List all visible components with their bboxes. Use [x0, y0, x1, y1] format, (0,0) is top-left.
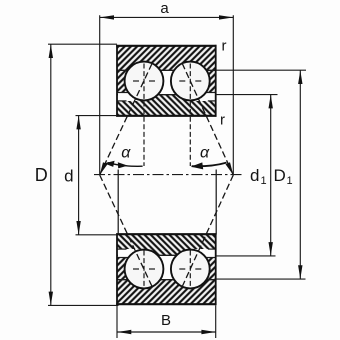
ball top-left: [125, 62, 164, 101]
gap edges right (top): [206, 92, 216, 94]
bore line (top section): [116, 115, 216, 117]
D1 extension line bottom: [216, 278, 306, 280]
contact line bottom-right dashed: [182, 175, 233, 287]
outer ring (bottom) hatched body: [117, 258, 216, 305]
svg-text:a: a: [160, 0, 169, 17]
svg-text:r: r: [222, 38, 227, 55]
svg-text:α: α: [121, 145, 131, 162]
B extension line right: [215, 305, 217, 338]
face gap notch right (bottom): [203, 250, 216, 258]
ball centerline dashed right (bottom): [189, 251, 191, 288]
ball top-right: [171, 62, 210, 101]
alpha arc arrow right: [191, 162, 227, 169]
D1 dimension line: [299, 70, 301, 279]
outer ring shoulder line (D1) bottom: [117, 279, 216, 281]
bore silhouette line right below axis: [215, 170, 217, 235]
ball centerline dashed left (top): [143, 64, 145, 167]
B arrow right: [201, 330, 215, 334]
d1 extension line top: [216, 94, 278, 96]
B arrow left: [117, 330, 131, 334]
B dimension line: [117, 331, 216, 333]
outer ring (top) hatched body: [117, 46, 216, 93]
gap edges left (top): [117, 92, 129, 94]
inner ring shoulder line (d1) bottom: [117, 254, 216, 256]
svg-text:d: d: [64, 167, 73, 186]
contact line top-left dashed: [100, 63, 152, 175]
svg-text:D: D: [274, 166, 286, 185]
outer ring shoulder line (D1) top: [117, 69, 216, 71]
ball bottom-right: [171, 250, 210, 289]
pressure center arrowhead left: [100, 162, 108, 175]
outer ring bottom edge: [116, 303, 216, 305]
face gap notch left (bottom): [118, 250, 131, 258]
ball cross dashes horizontal top-left: [133, 80, 139, 82]
d extension line bottom: [76, 234, 118, 236]
ball cross dashes horizontal bottom-left: [133, 268, 139, 270]
d extension line top: [76, 115, 118, 117]
D extension line top: [48, 43, 117, 45]
svg-text:r: r: [220, 112, 225, 129]
D dimension line: [50, 44, 52, 305]
left face line (bottom): [116, 233, 118, 305]
inner ring (top) hatched body: [117, 95, 216, 116]
face gap notch right (top): [203, 93, 216, 101]
d1 extension line bottom: [216, 255, 276, 257]
d arrow bottom: [76, 221, 80, 235]
D1 arrow top: [298, 70, 302, 84]
gap edges left (bottom): [117, 257, 129, 259]
d1 arrow top: [269, 95, 273, 109]
left face line (top): [116, 45, 118, 117]
svg-text:B: B: [161, 312, 171, 329]
right face line (top): [215, 45, 217, 117]
ball cross dashes horizontal bottom-right: [179, 268, 185, 270]
D1 extension line top: [216, 69, 306, 71]
ball centerline dashed right (top): [189, 64, 191, 167]
alpha arc arrow left: [104, 161, 142, 169]
right face line (bottom): [215, 233, 217, 305]
ball centerline dashed left (bottom): [143, 251, 145, 288]
svg-text:D: D: [35, 165, 48, 185]
a extension line left: [99, 15, 101, 175]
svg-text:α: α: [200, 145, 210, 162]
a dimension line: [100, 16, 234, 18]
svg-text:d: d: [250, 166, 259, 185]
a extension line right: [232, 15, 234, 175]
d dimension line: [78, 116, 80, 235]
inner ring shoulder line (d1) top: [117, 94, 216, 96]
ball cross dashes horizontal top-right: [179, 80, 185, 82]
B extension line left: [116, 305, 118, 338]
ball bottom-left: [125, 250, 164, 289]
D extension line bottom: [48, 304, 119, 306]
d arrow top: [76, 116, 80, 130]
outer ring top edge: [116, 45, 216, 47]
d1 arrow bottom: [269, 242, 273, 256]
d1 dimension line: [270, 95, 272, 256]
contact line bottom-left dashed: [100, 175, 152, 287]
face gap notch left (top): [118, 93, 131, 101]
bore line (bottom section): [116, 233, 216, 235]
bearing axis dash-dot centerline: [94, 174, 242, 176]
D1 arrow bottom: [298, 265, 302, 279]
D arrow top: [49, 44, 53, 58]
a arrow right: [219, 15, 233, 19]
svg-text:1: 1: [287, 175, 293, 187]
pressure center arrowhead right: [226, 162, 234, 175]
bore silhouette line left below axis: [117, 170, 119, 235]
inner ring (bottom) hatched body: [117, 234, 216, 255]
a arrow left: [100, 15, 114, 19]
contact line top-right dashed: [182, 63, 233, 175]
gap edges right (bottom): [206, 257, 216, 259]
D arrow bottom: [49, 292, 53, 306]
svg-text:1: 1: [261, 175, 267, 187]
